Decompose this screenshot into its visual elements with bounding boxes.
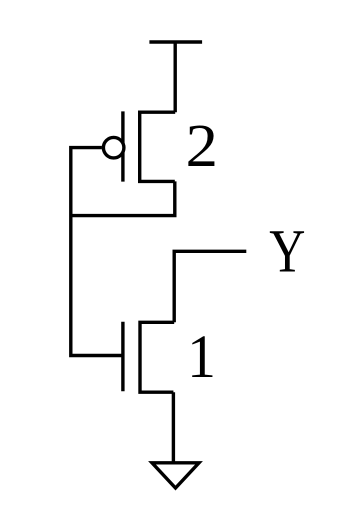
ground [152,463,199,488]
transistor M1 (NMOS) drain-channel-source staircase [140,322,174,392]
wire output Y node [174,251,246,322]
transistor M2 gate line [121,111,124,181]
wire VDD stem [173,42,176,112]
wire PMOS drain down and left to input rail [71,181,175,215]
svg-text:1: 1 [187,323,216,391]
power VDD bar [149,40,202,43]
bubble on PMOS gate [103,137,124,158]
svg-text:Y: Y [269,218,305,286]
wire PMOS gate lead, input rail, NMOS gate lead [71,148,123,356]
transistor M1 gate line [121,322,124,392]
svg-text:2: 2 [186,112,219,180]
transistor M2 (PMOS) source-channel-drain staircase [140,112,176,181]
wire NMOS source to ground [172,392,175,462]
